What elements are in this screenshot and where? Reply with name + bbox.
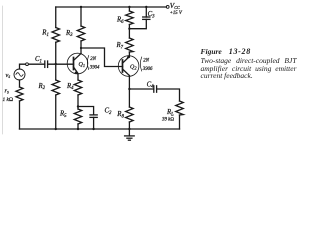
node collector junction [80, 47, 82, 49]
wire R5 bottom [77, 124, 79, 129]
label C2 [105, 108, 113, 116]
node R6 C3 bottom junction [128, 28, 130, 30]
transistor Q1 [67, 53, 88, 74]
wire C1 to Q1 base [48, 63, 74, 65]
svg-text:R3: R3 [65, 30, 73, 38]
wire RL bottom [179, 115, 181, 129]
wire R1 to base node [55, 42, 57, 64]
wire R3 bottom to collector node [80, 41, 82, 53]
capacitor C2 [90, 115, 97, 118]
label R3 [65, 30, 73, 38]
label R6 [116, 17, 124, 25]
svg-text:RL: RL [166, 109, 174, 117]
wire bottom rail [20, 128, 180, 130]
label Q2 [130, 65, 137, 71]
svg-text:R2: R2 [38, 83, 46, 91]
resistor R4 [74, 80, 82, 95]
wire C3 top [145, 7, 147, 17]
svg-text:+15 V: +15 V [170, 11, 183, 16]
node R3 top rail junction [80, 6, 82, 8]
ground [125, 129, 135, 140]
resistor R1 [52, 28, 60, 43]
svg-text:1 kΩ: 1 kΩ [3, 97, 14, 103]
source vs [14, 69, 25, 80]
label VCC [170, 2, 183, 16]
wire R2 top [55, 64, 57, 80]
node R5 bottom [77, 128, 79, 130]
svg-text:R6: R6 [116, 17, 124, 25]
resistor R7 [126, 38, 133, 52]
figure caption [201, 48, 297, 79]
wire source top to terminal [20, 64, 26, 69]
node R6 top rail junction [128, 6, 130, 8]
svg-text:R8: R8 [116, 111, 124, 119]
wire R3 column top [80, 7, 82, 26]
transistor Q2 [118, 55, 139, 76]
label 2N3904 [87, 56, 100, 71]
label R2 [38, 83, 46, 91]
node C2 bottom [92, 128, 94, 130]
svg-text:Q1: Q1 [79, 62, 86, 68]
wire R1 column top [55, 7, 57, 28]
wire R8 bottom [128, 122, 130, 129]
svg-text:2N: 2N [143, 59, 149, 64]
label C4 [147, 81, 155, 89]
node C3 top rail junction [145, 6, 147, 8]
wire R4 to R5 node [77, 95, 79, 109]
svg-text:3904: 3904 [90, 66, 100, 71]
label Q1 [79, 62, 86, 68]
svg-text:rs: rs [5, 88, 10, 96]
node R4 R5 junction [77, 105, 79, 107]
svg-text:VCC: VCC [170, 2, 180, 10]
svg-text:R4: R4 [66, 83, 74, 91]
svg-text:Q2: Q2 [130, 65, 137, 71]
wire top supply rail [56, 6, 167, 8]
svg-text:C2: C2 [105, 108, 113, 116]
svg-text:R5: R5 [59, 111, 67, 119]
label R5 [59, 111, 67, 119]
resistor rs [16, 87, 23, 101]
label vs [6, 72, 11, 80]
terminal input [26, 63, 29, 66]
wire R6 bottom [128, 25, 130, 39]
wire collector coupling to Q2 base [81, 48, 123, 67]
svg-text:C3: C3 [148, 11, 156, 19]
wire Q2 collector down [128, 76, 130, 108]
wire parallel connector [129, 19, 146, 28]
label R1 [41, 30, 49, 38]
resistor R3 [77, 26, 85, 41]
resistor R5 [74, 109, 82, 124]
resistor RL [176, 101, 184, 115]
wire source bottom to rs [19, 80, 21, 87]
label R4 [66, 83, 74, 91]
label C3 [148, 11, 156, 19]
wire to C2 top [78, 107, 94, 115]
node R2 bottom [55, 128, 57, 130]
wire C4 to RL [157, 89, 180, 101]
svg-text:3906: 3906 [143, 67, 153, 72]
svg-text:39 kΩ: 39 kΩ [162, 116, 174, 122]
wire C2 bottom [93, 117, 95, 129]
label R7 [116, 42, 124, 50]
wire Q1 emitter to R4 [77, 75, 79, 81]
capacitor C1 [45, 61, 48, 67]
label R8 [116, 111, 124, 119]
resistor R2 [52, 80, 60, 95]
svg-text:C1: C1 [35, 56, 42, 64]
svg-text:vs: vs [6, 72, 11, 80]
node ground junction [128, 128, 130, 130]
wire terminal to C1 [29, 63, 45, 65]
node base divider junction [55, 63, 57, 65]
wire R2 bottom [55, 95, 57, 129]
page edge artifact [2, 6, 4, 134]
label C1 [35, 56, 42, 64]
wire output to C4 [129, 88, 153, 90]
terminal VCC [166, 6, 169, 9]
node output junction [128, 88, 130, 90]
wire R7 bottom to Q2 emitter [128, 52, 130, 57]
svg-text:R7: R7 [116, 42, 124, 50]
label RL [162, 109, 174, 122]
capacitor C3 [143, 17, 150, 19]
wire rs to ground rail [19, 101, 21, 129]
capacitor C4 [154, 86, 157, 92]
resistor R6 [126, 11, 133, 25]
svg-text:2N: 2N [90, 57, 96, 62]
wire R6 top [128, 7, 130, 11]
svg-text:R1: R1 [41, 30, 49, 38]
label 2N3906 [140, 57, 153, 72]
label rs [3, 88, 14, 104]
resistor R8 [126, 107, 133, 122]
